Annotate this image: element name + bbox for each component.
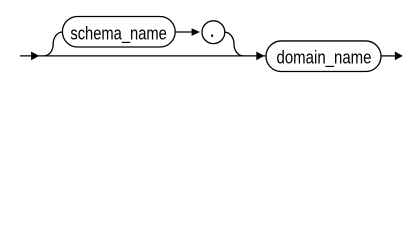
svg-text:schema_name: schema_name <box>70 24 167 45</box>
svg-text:domain_name: domain_name <box>277 47 372 68</box>
